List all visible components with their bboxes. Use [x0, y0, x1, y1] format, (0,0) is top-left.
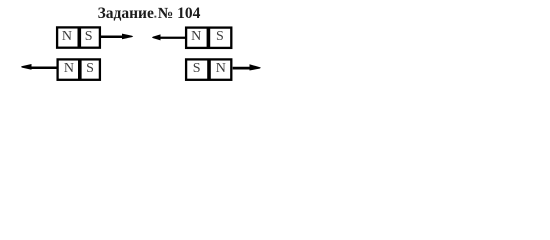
magnet M1 (row 1 left, N|S) — [57, 27, 100, 48]
svg-text:S: S — [193, 61, 201, 76]
svg-text:N: N — [64, 61, 74, 76]
arrow A3 (points left, into M3) — [21, 64, 57, 70]
arrow A2 (points left, into M2) — [152, 34, 185, 40]
magnet M3 (row 2 left, N|S) — [58, 59, 100, 80]
magnet M4 (row 2 right, S|N) — [186, 59, 231, 80]
svg-text:S: S — [216, 29, 224, 44]
svg-text:N: N — [191, 29, 201, 44]
svg-text:S: S — [85, 29, 93, 44]
arrow A4 (points right, from M4) — [233, 64, 261, 70]
svg-text:N: N — [216, 61, 226, 76]
svg-text:N: N — [62, 29, 72, 44]
magnet M2 (row 1 right, N|S) — [186, 27, 231, 48]
arrow A1 (points right, from M1) — [101, 34, 133, 40]
svg-text:S: S — [86, 61, 94, 76]
title: Задание № 104 — [98, 5, 201, 22]
svg-text:Задание № 104: Задание № 104 — [98, 5, 201, 22]
